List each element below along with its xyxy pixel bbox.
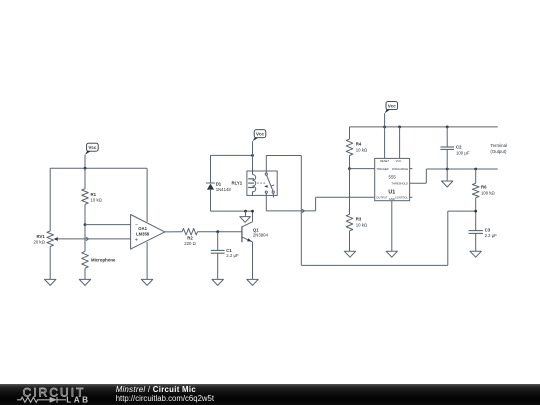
svg-text:Minstrel / Circuit Mic: Minstrel / Circuit Mic (116, 385, 197, 394)
svg-text:LAB: LAB (66, 395, 90, 404)
svg-text:http://circuitlab.com/c6q2w5t: http://circuitlab.com/c6q2w5t (116, 394, 215, 403)
